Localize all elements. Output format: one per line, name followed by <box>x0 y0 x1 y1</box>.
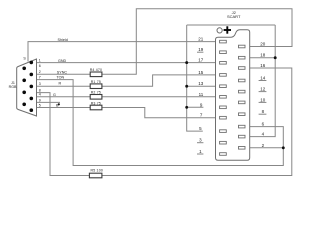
svg-text:9: 9 <box>39 98 41 102</box>
svg-text:18: 18 <box>260 53 266 58</box>
svg-text:11: 11 <box>199 92 204 97</box>
svg-text:R: R <box>59 82 62 86</box>
svg-text:14: 14 <box>260 76 266 81</box>
svg-text:1: 1 <box>39 59 41 63</box>
svg-text:2: 2 <box>39 70 41 74</box>
svg-text:RGB: RGB <box>9 85 17 89</box>
svg-text:15: 15 <box>198 70 204 75</box>
svg-text:R1 75: R1 75 <box>91 80 101 84</box>
svg-text:10: 10 <box>260 97 266 102</box>
svg-text:SCART: SCART <box>227 14 241 19</box>
svg-text:21: 21 <box>198 37 204 42</box>
svg-text:5: 5 <box>39 103 41 107</box>
svg-text:SYNC: SYNC <box>57 70 68 74</box>
svg-text:20: 20 <box>260 42 266 47</box>
svg-text:17: 17 <box>198 58 204 63</box>
svg-text:R5 100: R5 100 <box>91 169 104 173</box>
svg-text:13: 13 <box>198 81 204 86</box>
svg-text:4: 4 <box>39 93 41 97</box>
svg-text:GND: GND <box>58 59 67 63</box>
svg-text:3: 3 <box>39 82 41 86</box>
svg-text:TON: TON <box>57 76 65 80</box>
svg-text:6: 6 <box>39 64 41 68</box>
svg-text:16: 16 <box>260 63 266 68</box>
svg-text:R3 75: R3 75 <box>91 101 101 105</box>
svg-text:G: G <box>53 93 56 97</box>
svg-text:19: 19 <box>198 47 204 52</box>
svg-text:Shield: Shield <box>58 38 68 42</box>
svg-text:R2 75: R2 75 <box>91 91 101 95</box>
svg-text:12: 12 <box>260 87 266 92</box>
svg-text:7: 7 <box>39 76 41 80</box>
svg-text:R4 470: R4 470 <box>90 68 103 72</box>
